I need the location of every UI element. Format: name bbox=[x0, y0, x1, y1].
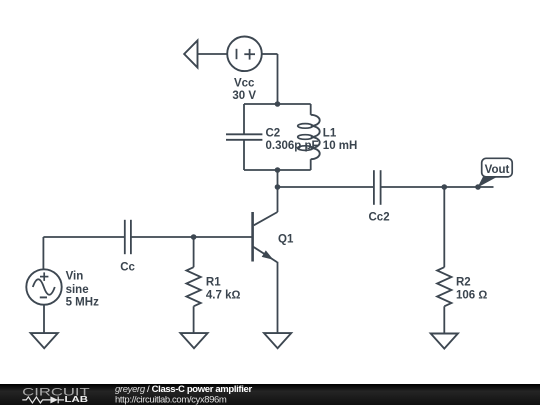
svg-text:5 MHz: 5 MHz bbox=[66, 297, 99, 309]
svg-text:Q1: Q1 bbox=[278, 233, 294, 245]
svg-text:Vin: Vin bbox=[66, 271, 84, 283]
svg-text:30 V: 30 V bbox=[232, 90, 256, 102]
svg-text:10 mH: 10 mH bbox=[323, 140, 358, 152]
svg-text:4.7 kΩ: 4.7 kΩ bbox=[206, 290, 241, 302]
svg-text:Vcc: Vcc bbox=[234, 77, 255, 89]
svg-text:Vout: Vout bbox=[485, 164, 510, 176]
svg-text:0.306p pF: 0.306p pF bbox=[266, 140, 319, 152]
svg-text:R1: R1 bbox=[206, 277, 221, 289]
svg-text:LAB: LAB bbox=[65, 395, 89, 404]
svg-text:sine: sine bbox=[66, 284, 89, 296]
svg-text:Cc2: Cc2 bbox=[369, 211, 390, 223]
svg-text:L1: L1 bbox=[323, 128, 337, 140]
svg-text:C2: C2 bbox=[266, 128, 281, 140]
svg-text:R2: R2 bbox=[456, 277, 471, 289]
svg-text:Cc: Cc bbox=[120, 262, 135, 274]
svg-text:http://circuitlab.com/cyx896m: http://circuitlab.com/cyx896m bbox=[115, 394, 227, 405]
svg-text:106 Ω: 106 Ω bbox=[456, 290, 487, 302]
